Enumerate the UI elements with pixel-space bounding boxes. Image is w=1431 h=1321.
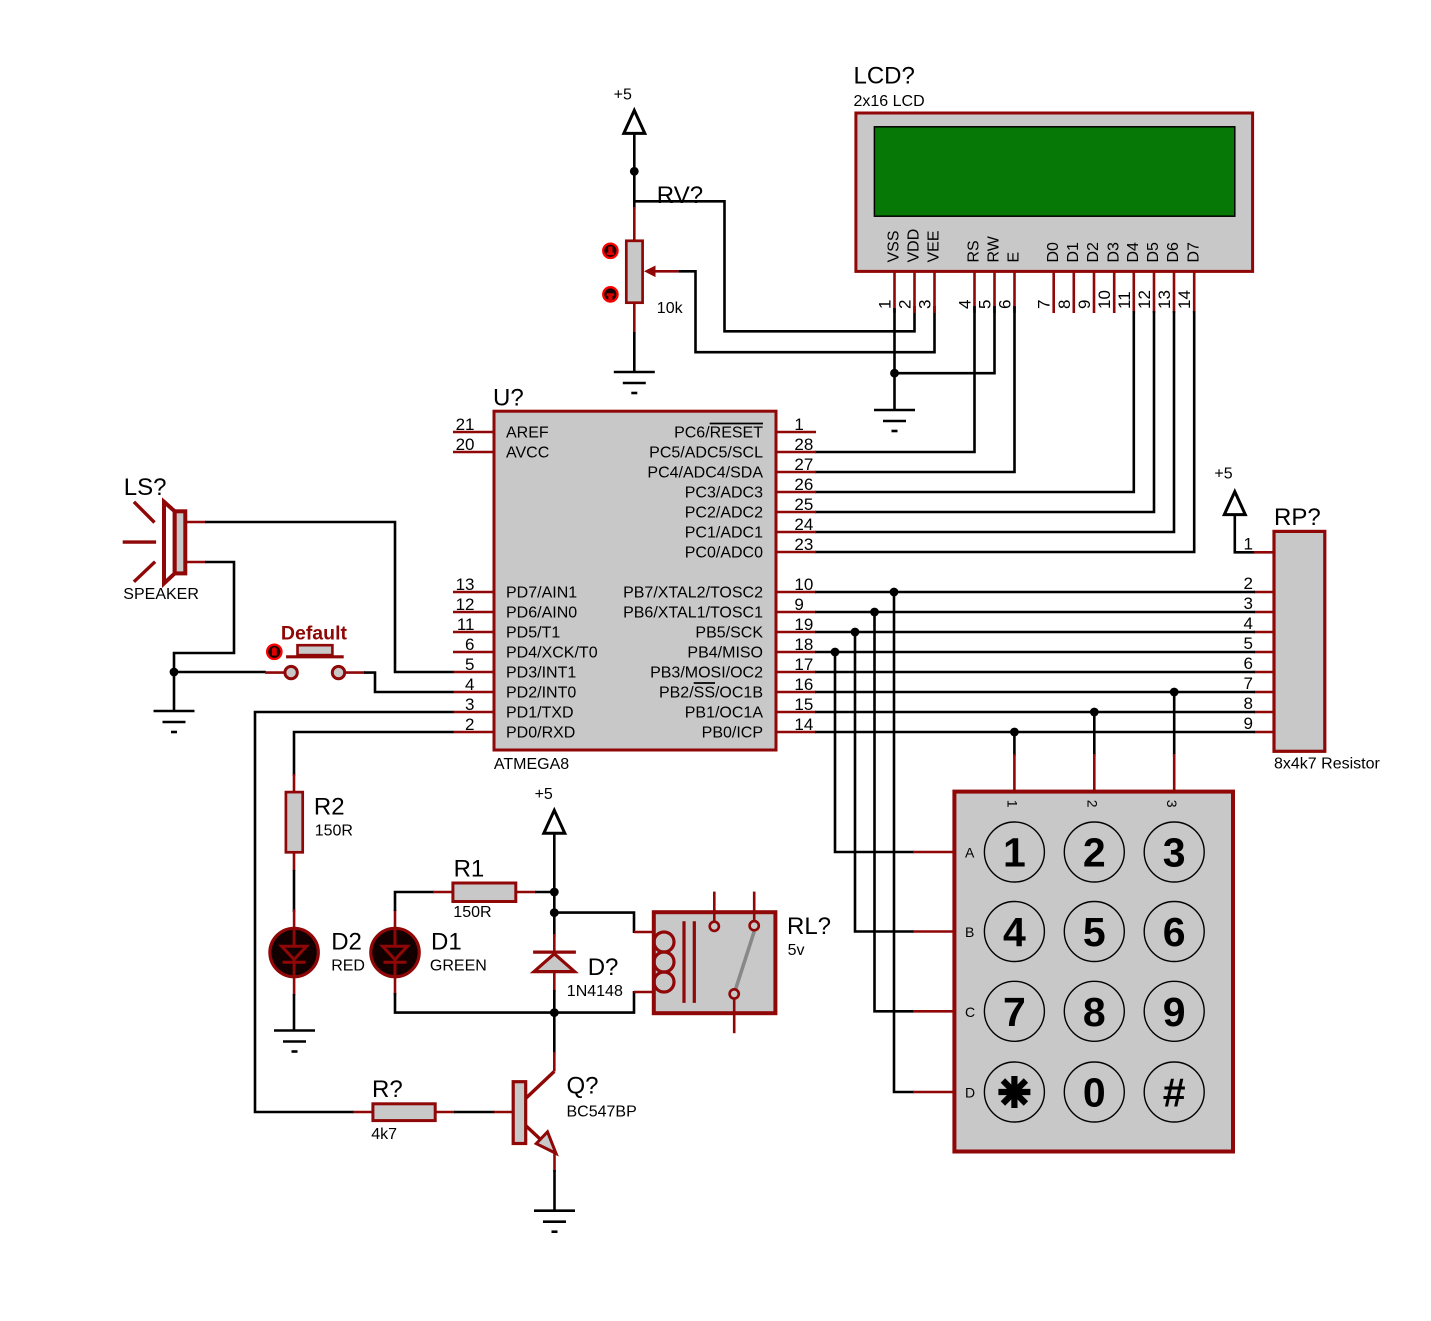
LCD LCD? 2x16 display	[854, 63, 1253, 272]
keypad button 9	[1144, 981, 1204, 1041]
wire collector node down to Q? collector	[553, 1013, 556, 1054]
svg-text:LS?: LS?	[124, 474, 167, 501]
svg-text:PD1/TXD: PD1/TXD	[506, 705, 574, 722]
svg-text:AVCC: AVCC	[506, 445, 549, 462]
svg-text:4: 4	[465, 675, 474, 694]
svg-text:16: 16	[794, 675, 813, 694]
wire LS? bottom terminal to ground junction	[174, 562, 234, 711]
svg-text:5: 5	[1083, 909, 1106, 955]
svg-text:PC3/ADC3: PC3/ADC3	[685, 485, 763, 502]
svg-text:8x4k7 Resistor: 8x4k7 Resistor	[1274, 756, 1380, 773]
node VSS/RW ground junction	[890, 369, 899, 378]
resistor RV? 10k potentiometer	[626, 182, 703, 334]
svg-text:26: 26	[794, 475, 813, 494]
svg-text:9: 9	[794, 595, 803, 614]
svg-text:D0: D0	[1045, 242, 1062, 263]
svg-text:4: 4	[1003, 909, 1026, 955]
svg-text:#: #	[1163, 1070, 1186, 1116]
svg-text:10: 10	[1095, 290, 1114, 309]
wire U? pin2 PD0/RXD to R2 top	[294, 732, 454, 776]
wire +5 to RV? top	[633, 133, 636, 209]
svg-text:20: 20	[456, 435, 475, 454]
microcontroller U? ATMEGA8	[493, 385, 776, 773]
overline for RESET (pin PC6)	[710, 423, 763, 425]
svg-text:12: 12	[456, 595, 475, 614]
svg-text:25: 25	[794, 495, 813, 514]
U? left pin stubs, numbers, labels	[453, 432, 494, 732]
svg-text:PD3/INT1: PD3/INT1	[506, 665, 576, 682]
svg-text:1: 1	[1244, 534, 1253, 553]
overline for SS (pin PB2)	[694, 682, 715, 684]
svg-text:6: 6	[465, 635, 474, 654]
svg-text:11: 11	[457, 615, 475, 634]
svg-text:+5: +5	[535, 786, 553, 803]
ground left under speaker	[154, 711, 195, 732]
svg-text:R1: R1	[454, 856, 485, 883]
svg-text:14: 14	[1175, 290, 1194, 309]
svg-text:5: 5	[1244, 634, 1253, 653]
svg-text:E: E	[1006, 252, 1023, 263]
svg-text:D6: D6	[1165, 242, 1182, 263]
svg-text:23: 23	[794, 535, 813, 554]
svg-text:11: 11	[1115, 291, 1134, 309]
svg-text:VDD: VDD	[906, 229, 923, 263]
svg-text:12: 12	[1135, 290, 1154, 309]
svg-text:GREEN: GREEN	[430, 958, 487, 975]
wire LCD E (pin6) to U? pin27 PC4	[815, 306, 1015, 472]
wire U? PB0/ICP to RP9	[815, 731, 1255, 734]
node +5/VDD junction	[630, 167, 639, 176]
LCD pin stubs and labels	[895, 273, 1195, 314]
svg-text:LCD?: LCD?	[854, 63, 915, 90]
transistor Q? BC547BP	[513, 1052, 637, 1172]
svg-text:RED: RED	[331, 958, 365, 975]
resistor R2 150R	[286, 774, 353, 871]
svg-text:R2: R2	[314, 794, 345, 821]
power +5 above relay/diode	[535, 786, 565, 833]
svg-text:+5: +5	[1214, 465, 1232, 482]
svg-text:RS: RS	[966, 240, 983, 262]
svg-text:6: 6	[996, 300, 1015, 309]
svg-text:1: 1	[794, 415, 803, 434]
keypad row pin stubs A-D	[913, 852, 956, 1092]
svg-text:D1: D1	[431, 929, 462, 956]
resistor R1 150R	[433, 856, 536, 922]
svg-text:D7: D7	[1185, 242, 1202, 263]
wire keypad row D to PB7 line	[894, 592, 914, 1092]
svg-text:8: 8	[1244, 694, 1253, 713]
wire +5 down through junctions to diode D?	[553, 833, 556, 937]
wire LS? top terminal to U? pin5 PD3/INT1	[205, 522, 454, 672]
svg-text:6: 6	[1163, 909, 1186, 955]
svg-text:PC5/ADC5/SCL: PC5/ADC5/SCL	[649, 445, 763, 462]
svg-text:D1: D1	[1065, 242, 1082, 263]
wire R1 right to +5 node	[535, 891, 554, 894]
wire U? PB2/SS/OC1B to RP7	[815, 691, 1255, 694]
wire D1/D2 bottom rail to collector node	[395, 993, 554, 1013]
svg-text:VSS: VSS	[886, 230, 903, 262]
wire R2 bottom to LED D2	[293, 870, 296, 912]
svg-text:C: C	[965, 1004, 975, 1020]
node collector junction	[550, 1008, 559, 1017]
wire U? PB1/OC1A to RP8	[815, 711, 1255, 714]
svg-text:3: 3	[1163, 830, 1186, 876]
power +5 for RV?	[614, 87, 645, 134]
svg-text:3: 3	[1164, 800, 1180, 808]
wire R? right to Q? base	[454, 1111, 495, 1114]
svg-text:3: 3	[1244, 594, 1253, 613]
svg-text:8: 8	[1083, 989, 1106, 1035]
node relay branch junction	[550, 908, 559, 917]
marker RV? actuator up	[603, 244, 617, 258]
svg-text:PC2/ADC2: PC2/ADC2	[685, 505, 763, 522]
svg-text:PB1/OC1A: PB1/OC1A	[685, 705, 764, 722]
svg-text:1: 1	[1003, 830, 1026, 876]
wire LCD VSS (pin1) to ground	[893, 308, 896, 410]
wire ground junction to Default button left terminal	[174, 671, 266, 674]
svg-text:19: 19	[794, 615, 813, 634]
wire U? PB7/XTAL2/TOSC2 to RP2	[815, 591, 1255, 594]
ground under LCD pin1	[874, 410, 915, 431]
svg-text:13: 13	[456, 575, 475, 594]
wire D2 bottom to ground	[293, 994, 296, 1031]
wire U? PB6/XTAL1/TOSC1 to RP3	[815, 611, 1255, 614]
node speaker/button ground junction	[170, 668, 179, 677]
svg-text:9: 9	[1075, 300, 1094, 309]
svg-text:PB6/XTAL1/TOSC1: PB6/XTAL1/TOSC1	[623, 605, 763, 622]
svg-text:2x16 LCD: 2x16 LCD	[854, 93, 925, 110]
svg-text:PB4/MISO: PB4/MISO	[687, 645, 763, 662]
svg-text:1N4148: 1N4148	[567, 983, 623, 1000]
svg-text:D2: D2	[331, 929, 362, 956]
svg-text:SPEAKER: SPEAKER	[123, 586, 199, 603]
speaker LS?	[123, 474, 206, 603]
svg-text:10: 10	[794, 575, 813, 594]
keypad button 7	[984, 981, 1044, 1041]
wire RV? bottom to ground	[633, 332, 636, 372]
svg-text:Default: Default	[281, 623, 348, 645]
svg-text:4k7: 4k7	[371, 1126, 397, 1143]
wire keypad row A to PB4 line	[835, 652, 914, 852]
node row B / PB5 junction	[851, 628, 860, 637]
svg-text:8: 8	[1055, 300, 1074, 309]
svg-text:PD6/AIN0: PD6/AIN0	[506, 605, 577, 622]
svg-text:VEE: VEE	[926, 230, 943, 262]
relay RL? 5v	[634, 892, 831, 1034]
keypad button #	[1144, 1062, 1204, 1122]
ground under Q?	[534, 1211, 575, 1232]
svg-text:10k: 10k	[657, 300, 684, 317]
wire LCD RS (pin4) to U? pin28 PC5	[815, 306, 975, 452]
svg-text:PC4/ADC4/SDA: PC4/ADC4/SDA	[647, 465, 763, 482]
svg-text:4: 4	[956, 300, 975, 309]
wire keypad row C to PB6 line	[875, 612, 915, 1011]
svg-text:Q?: Q?	[567, 1073, 599, 1100]
svg-text:PC6/RESET: PC6/RESET	[674, 425, 763, 442]
LED D2 RED	[270, 910, 318, 996]
svg-text:17: 17	[794, 655, 813, 674]
wire relay coil bottom to collector node rail	[554, 991, 634, 1013]
wire keypad col 1 to PB0 line	[1013, 732, 1016, 756]
svg-text:R?: R?	[372, 1076, 403, 1103]
svg-text:5: 5	[465, 655, 474, 674]
wire Default button right terminal to U? pin4 PD2/INT0	[364, 673, 454, 692]
wire LCD RW (pin5) to ground junction	[895, 306, 995, 373]
keypad button 6	[1144, 902, 1204, 962]
svg-text:AREF: AREF	[506, 425, 549, 442]
keypad button 5	[1064, 902, 1124, 962]
svg-text:2: 2	[1084, 800, 1100, 808]
svg-text:3: 3	[916, 300, 935, 309]
keypad button 3	[1144, 822, 1204, 882]
keypad button *	[984, 1062, 1044, 1122]
svg-text:14: 14	[794, 715, 813, 734]
node col 3 / PB2 junction	[1170, 688, 1179, 697]
svg-text:PB5/SCK: PB5/SCK	[695, 625, 763, 642]
keypad button 1	[984, 822, 1044, 882]
wire keypad row B to PB5 line	[855, 632, 914, 932]
svg-text:PB3/MOSI/OC2: PB3/MOSI/OC2	[650, 665, 763, 682]
svg-text:2: 2	[465, 715, 474, 734]
keypad button 2	[1064, 822, 1124, 882]
svg-text:27: 27	[794, 455, 813, 474]
svg-text:D4: D4	[1125, 242, 1142, 263]
svg-text:RP?: RP?	[1274, 504, 1321, 531]
svg-text:RV?: RV?	[657, 182, 703, 209]
ground under RV?	[614, 372, 655, 393]
svg-text:3: 3	[465, 695, 474, 714]
node row D / PB7 junction	[890, 588, 899, 597]
wire LCD D5 (pin12) to U? pin25 PC2	[815, 311, 1154, 512]
marker RV? actuator down	[603, 287, 617, 302]
node row C / PB6 junction	[870, 608, 879, 617]
keypad column pin stubs 1-3	[1014, 754, 1174, 793]
svg-text:PD7/AIN1: PD7/AIN1	[506, 585, 577, 602]
wire U? PB3/MOSI/OC2 to RP6	[815, 671, 1255, 674]
svg-text:PB7/XTAL2/TOSC2: PB7/XTAL2/TOSC2	[623, 585, 763, 602]
svg-text:A: A	[965, 845, 975, 861]
keypad button 4	[984, 902, 1044, 962]
svg-text:D3: D3	[1105, 242, 1122, 263]
wire LCD D7 (pin14) to U? pin23 PC0	[815, 311, 1194, 552]
wire U? PB4/MISO to RP5	[815, 651, 1255, 654]
svg-text:1: 1	[1004, 800, 1020, 808]
svg-text:4: 4	[1244, 614, 1253, 633]
wire +5 to RP? pin1	[1235, 514, 1255, 552]
svg-text:1: 1	[876, 300, 895, 309]
svg-text:150R: 150R	[315, 823, 353, 840]
svg-text:7: 7	[1003, 989, 1026, 1035]
resistor pack RP? 8x4k7	[1274, 504, 1380, 773]
svg-text:U?: U?	[493, 385, 524, 412]
svg-text:BC547BP: BC547BP	[567, 1103, 637, 1120]
svg-text:5v: 5v	[788, 942, 805, 959]
wire relay coil top to +5 branch junction	[554, 913, 634, 933]
wire Q? emitter to ground	[553, 1170, 556, 1211]
svg-text:RW: RW	[986, 235, 1003, 262]
keypad body	[954, 792, 1233, 1152]
U? right pin stubs, numbers, labels	[776, 432, 816, 732]
svg-text:9: 9	[1244, 714, 1253, 733]
svg-text:PB0/ICP: PB0/ICP	[702, 725, 763, 742]
svg-text:+5: +5	[614, 87, 632, 104]
svg-text:D2: D2	[1085, 242, 1102, 263]
svg-text:5: 5	[976, 300, 995, 309]
svg-text:PD2/INT0: PD2/INT0	[506, 685, 576, 702]
svg-text:RL?: RL?	[787, 913, 831, 940]
svg-text:PB2/SS/OC1B: PB2/SS/OC1B	[659, 685, 763, 702]
wire keypad col 2 to PB1 line	[1093, 712, 1096, 756]
node R1/+5 junction	[550, 888, 559, 897]
keypad button 0	[1064, 1062, 1124, 1122]
wire LCD D4 (pin11) to U? pin26 PC3	[815, 311, 1134, 492]
wire U? pin3 PD1/TXD down to R?	[255, 712, 454, 1112]
wire U? PB5/SCK to RP4	[815, 631, 1255, 634]
svg-text:18: 18	[794, 635, 813, 654]
node col 2 / PB1 junction	[1090, 708, 1099, 717]
LED D1 GREEN	[371, 910, 419, 996]
power +5 for RP?	[1214, 465, 1245, 514]
node col 1 / PB0 junction	[1010, 728, 1019, 737]
ground under D2	[274, 1031, 315, 1052]
svg-text:15: 15	[794, 695, 813, 714]
svg-text:21: 21	[456, 415, 475, 434]
push button Default	[265, 623, 365, 679]
resistor R? 4k7	[353, 1076, 455, 1143]
svg-text:PD5/T1: PD5/T1	[506, 625, 560, 642]
RP? pin stubs and numbers	[1254, 552, 1274, 732]
svg-text:2: 2	[1083, 830, 1106, 876]
wire keypad col 3 to PB2 line	[1173, 692, 1176, 756]
svg-text:PD4/XCK/T0: PD4/XCK/T0	[506, 645, 598, 662]
diode D? 1N4148	[533, 934, 623, 1000]
wire VDD net: +5 branch to LCD pin2	[634, 201, 914, 331]
wire D? bottom to collector node	[553, 990, 556, 1013]
node row A / PB4 junction	[831, 648, 840, 657]
svg-text:PC0/ADC0: PC0/ADC0	[685, 545, 763, 562]
svg-text:9: 9	[1163, 989, 1186, 1035]
svg-text:D: D	[965, 1085, 975, 1101]
wire D1 top to R1 left	[395, 892, 434, 911]
marker Default button actuator	[267, 645, 281, 659]
wire LCD D6 (pin13) to U? pin24 PC1	[815, 311, 1174, 532]
keypad button 8	[1064, 981, 1124, 1041]
svg-text:13: 13	[1155, 290, 1174, 309]
svg-text:2: 2	[896, 300, 915, 309]
svg-text:B: B	[965, 924, 974, 940]
svg-text:7: 7	[1244, 674, 1253, 693]
svg-text:PC1/ADC1: PC1/ADC1	[685, 525, 763, 542]
svg-text:D5: D5	[1145, 242, 1162, 263]
svg-text:2: 2	[1244, 574, 1253, 593]
svg-text:150R: 150R	[453, 904, 491, 921]
svg-text:ATMEGA8: ATMEGA8	[494, 756, 569, 773]
svg-text:6: 6	[1244, 654, 1253, 673]
svg-text:D?: D?	[588, 954, 619, 981]
svg-text:7: 7	[1035, 300, 1054, 309]
wire RV? wiper to LCD pin3 (VEE)	[679, 271, 935, 352]
svg-text:24: 24	[794, 515, 813, 534]
svg-text:0: 0	[1083, 1070, 1106, 1116]
svg-text:28: 28	[794, 435, 813, 454]
svg-text:PD0/RXD: PD0/RXD	[506, 725, 575, 742]
